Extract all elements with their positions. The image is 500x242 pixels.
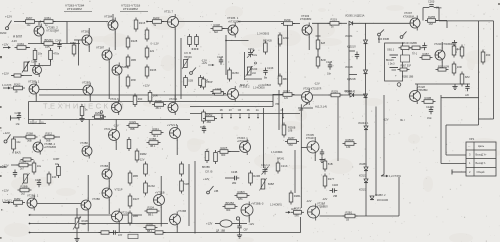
wire x301 vert (300, 104, 302, 208)
capacitor C248 (17, 113, 21, 121)
resistor R264 (17, 159, 31, 170)
diode VD248 (364, 70, 368, 74)
scan speck 7 (498, 3, 500, 5)
label VT214b (121, 211, 129, 215)
wire VT285.2 emitter down (40, 38, 42, 44)
resistor ВР283 (223, 201, 238, 212)
wire bus LB1 (29, 214, 142, 216)
node 1,2-UT3L arrow (381, 175, 402, 178)
scan speck 4 (0, 175, 2, 177)
resistor R240 120k (278, 33, 289, 47)
capacitor C208 (422, 43, 426, 51)
resistor R261 (42, 16, 56, 27)
label R250B (288, 127, 296, 130)
label P8 (276, 103, 280, 106)
node -12V ch1 (11, 39, 17, 43)
resistor R2V3 (147, 137, 161, 148)
resistor R263 (15, 42, 29, 49)
resistor R238b (422, 96, 436, 103)
wire x376 vert (375, 107, 377, 197)
label KT363 b (417, 89, 427, 92)
wire top bus right4 (353, 22, 410, 24)
wire block lower bus (190, 112, 300, 114)
transistor VT219 (102, 186, 112, 201)
wire VT215 dn (176, 140, 178, 156)
terminal bar pin2 (451, 170, 453, 175)
node +12V f (203, 177, 210, 181)
label 1,3-KOB01 (271, 151, 283, 154)
wire to pin1 (441, 163, 466, 165)
label VD249.2t (345, 91, 356, 94)
capacitor C252 (202, 126, 206, 134)
label KD521 d (359, 189, 367, 192)
wire VT286b up (87, 175, 89, 200)
label KT368 (317, 206, 328, 209)
label VT285.1 (28, 80, 40, 84)
resistor R265c (12, 137, 22, 152)
label VD244.1 (358, 122, 369, 125)
scan speck 5 (1, 209, 2, 211)
wire VT214b dn (118, 223, 120, 233)
wire x365 seg2 (365, 44, 367, 70)
wire VT281 out (88, 46, 90, 52)
label VT280 (80, 141, 88, 145)
label A(1,3,L4) (315, 104, 327, 108)
resistor R281b (289, 191, 301, 205)
trimmer capacitor C251 (247, 50, 255, 58)
wire rail d (11, 164, 32, 166)
trimmer resistor ВР240 (246, 66, 253, 77)
resistor R241 (150, 127, 164, 138)
connector XP1 label (469, 137, 475, 141)
wire to pin3 (446, 154, 466, 156)
label VT206 (317, 202, 325, 206)
wire VT283b up (108, 162, 110, 169)
wire x195 vert (194, 161, 196, 234)
resistor R24L (184, 75, 194, 88)
wire right bus down (478, 21, 480, 98)
node j2 (146, 21, 148, 23)
capacitor C2m (355, 52, 359, 60)
label 1,3-6C (2, 199, 12, 203)
label x5B (333, 195, 338, 198)
label SOVT (53, 158, 60, 161)
label B2BL (268, 183, 274, 186)
label VT205m (306, 133, 314, 137)
label TL-1 (412, 53, 418, 56)
scan speck 3 (0, 127, 1, 129)
capacitor C243 (263, 66, 273, 75)
label KT363BM a (300, 17, 311, 21)
label VT287b (82, 81, 91, 85)
ground g5 (237, 233, 242, 239)
wire VT288 down (118, 77, 120, 102)
wire VT280 up (88, 120, 90, 146)
label x38 (214, 190, 219, 193)
wire x78 vert (78, 40, 80, 66)
wire block right edge (272, 94, 274, 107)
label VD28L.2 (375, 194, 386, 197)
transistor VT206 (308, 204, 320, 221)
label x10k (252, 54, 258, 57)
trimmer capacitor C212 (262, 167, 269, 175)
node +12V ch2 (3, 131, 10, 135)
resistor R275 (80, 104, 88, 118)
resistor R234b (180, 179, 190, 194)
capacitor C248 label (15, 111, 22, 115)
node +12V m2 (0, 0, 1, 1)
label KTL21 (237, 140, 249, 143)
label 46R (453, 53, 458, 55)
node A134 arrow (303, 103, 308, 107)
terminal bar C248 (10, 116, 12, 121)
resistor R2L3 (291, 207, 304, 218)
resistor R233b (0, 162, 183, 177)
wire x447 down (446, 21, 448, 29)
wire ch2 rail (14, 136, 26, 138)
header VT215-VT218 (121, 4, 141, 8)
node +12V lower (2, 72, 9, 76)
resistor R265b (32, 161, 42, 175)
label NR249 (184, 56, 192, 59)
label 1LU (118, 235, 123, 237)
resistor R234 (145, 46, 154, 60)
node -12V g (249, 222, 255, 226)
wire x365 seg3 (365, 74, 367, 94)
resistor R249b (199, 75, 209, 88)
switch SA1.1 (6, 27, 9, 30)
resistor R282 (11, 197, 25, 208)
wire VT213 up (115, 120, 117, 130)
transistor VT286.1 (33, 63, 42, 77)
resistor R221 (460, 72, 470, 87)
diode VD264 (364, 40, 368, 44)
wire lower link (30, 65, 51, 67)
resistor R247 (281, 89, 295, 100)
wire x189 vert (188, 164, 190, 226)
transistor VT205m (307, 139, 319, 156)
node -12V m (113, 123, 119, 127)
resistor R277 (323, 174, 335, 189)
node j1 (112, 21, 114, 23)
label KTL02 (44, 146, 56, 149)
resistor R235 (145, 65, 157, 79)
wire bus bottom right (355, 215, 399, 217)
label VT288.2 (44, 142, 56, 146)
label 1Mk (436, 8, 442, 10)
node +12V d (2, 163, 9, 167)
resistor R231 (0, 162, 147, 177)
wire x366 vert1 (365, 95, 367, 126)
wire x493 vert (493, 21, 495, 119)
resistor R28L (235, 190, 250, 201)
wire VT213 dn (115, 142, 117, 151)
component C24B box (401, 55, 410, 62)
resistor R249c (218, 146, 231, 157)
wire R208 right (436, 20, 448, 22)
node -12V c (383, 117, 389, 121)
wire R247 left (273, 94, 283, 96)
label S23 (378, 39, 389, 41)
transistor VT287 (96, 46, 112, 63)
wire x366 vert2 (365, 130, 367, 216)
label 2B2 (232, 182, 237, 185)
wire R263 to bus (26, 47, 30, 49)
trimcap C212 label (261, 164, 271, 167)
wire R223 to VT217 (162, 21, 168, 23)
label x20 (465, 94, 470, 97)
label R253 (200, 126, 206, 129)
wire VT284 collector (112, 14, 114, 20)
resistor R2BL (148, 90, 158, 104)
resistor R223 (150, 16, 164, 27)
wire R269 down (50, 60, 52, 66)
resistor R248m (211, 90, 224, 93)
wire bus LB2 (29, 223, 168, 225)
pin 2Б of block (247, 110, 250, 118)
label A BHL (13, 35, 22, 39)
wire x282 vert (282, 108, 284, 125)
label 1LB (288, 131, 293, 133)
transistor VT238 (170, 212, 181, 228)
transistor VT229 (435, 48, 445, 63)
node -12V b (314, 82, 320, 86)
label VT218 (155, 190, 165, 194)
label VT238 (178, 209, 186, 213)
label 2B (301, 110, 304, 112)
header underline 2 (120, 11, 148, 13)
trimmer resistor R918 (73, 217, 81, 230)
transistor VT285.2 (34, 24, 59, 39)
resistor ВР241 (264, 41, 268, 55)
label VT215 (167, 123, 178, 127)
wire x365 vert (365, 23, 367, 40)
wire x279 vert (278, 90, 280, 130)
label VT203 (301, 14, 310, 18)
resistor R291 (47, 172, 57, 186)
label VT229 (434, 43, 453, 46)
resistor R252v (202, 110, 206, 124)
transistor VT228 (410, 88, 421, 104)
resistor R281 (343, 210, 358, 221)
label DL188 (216, 229, 225, 232)
diode VD285 (364, 167, 368, 171)
battery cell 2 (390, 68, 399, 71)
wire y97 right (441, 97, 479, 99)
label C24B (401, 65, 412, 68)
resistor R228b (128, 211, 138, 226)
switch SB2 (400, 32, 406, 39)
resistor R266 (12, 74, 24, 77)
label BP285 (202, 166, 210, 169)
capacitor C245b label (35, 179, 42, 182)
ground g2 (79, 116, 84, 122)
transistor VT287b (83, 83, 93, 98)
resistor R243 (399, 46, 412, 50)
resistor R267 (23, 16, 37, 27)
label VD248 (345, 66, 353, 69)
wire VT205m dn (314, 155, 316, 161)
transistor VT281 (81, 30, 92, 48)
diode VD244.1 (364, 126, 368, 130)
label 1Mk b (427, 117, 432, 120)
label CB (244, 229, 248, 232)
label ACT (291, 208, 296, 211)
connector contact a (100, 111, 103, 114)
wire x283 vert (287, 25, 289, 93)
capacitor C248b (232, 176, 240, 180)
label VD265.1 (345, 15, 365, 18)
resistor R233 (0, 28, 149, 42)
capacitor C2g (237, 223, 241, 231)
label VT213 (104, 127, 113, 131)
node input arrow ch2 (3, 201, 11, 204)
wire lamp right (232, 223, 247, 225)
label 10n (327, 73, 332, 76)
wire x446 down (445, 125, 447, 155)
resistor R232b (144, 222, 158, 233)
wire VT281 base link (74, 39, 82, 41)
wire R267-R261 (37, 21, 44, 23)
node j3 (225, 40, 227, 42)
label A BHL 2 (12, 151, 20, 155)
diode VD286 (364, 179, 368, 183)
wire x441 vert (440, 95, 442, 164)
wire cap to gnd (239, 231, 241, 233)
capacitor L2B (111, 230, 119, 234)
wire y51 link (349, 50, 355, 52)
wire block left edge (28, 102, 30, 124)
wire mid main bus (39, 94, 366, 96)
trimmer resistor R270 (22, 61, 30, 73)
wire VT287b emitter dn (89, 96, 91, 102)
capacitor C246b (217, 55, 224, 65)
capacitor C2v (320, 149, 324, 157)
wire vert x318 (317, 23, 319, 40)
transistor VT285.1b (27, 196, 37, 211)
wire VT219 dn (108, 200, 110, 215)
capacitor C220 label (426, 106, 434, 109)
wire VT229 emitter dn (441, 62, 443, 69)
capacitor C220 (429, 107, 433, 115)
wire top bus mid (67, 21, 108, 23)
label KD521 c (359, 175, 367, 178)
label VT205.1 (227, 16, 239, 20)
wire x244 vert (244, 52, 246, 80)
resistor R201 (436, 68, 449, 71)
transistor VT217 (164, 10, 179, 31)
switch contact circle (236, 217, 239, 220)
resistor R239 (281, 18, 295, 25)
resistor R21A (99, 231, 112, 234)
wire VT217 down (174, 29, 176, 100)
wire lower rail (11, 75, 32, 77)
resistor R203 (452, 62, 462, 76)
switch SB3 (207, 186, 214, 194)
resistor R2s2 (195, 34, 199, 47)
wire x295 vert (294, 150, 296, 193)
watermark TEKHNICHESKIY (43, 102, 126, 111)
transistor VT215 (170, 125, 181, 141)
capacitor C246 label (55, 39, 62, 43)
wire VT238 dn (176, 226, 178, 233)
wire x480 down (478, 98, 480, 125)
wire VT288.3 em (248, 217, 250, 223)
capacitor C245b (37, 180, 41, 188)
transistor VT288 (112, 63, 128, 78)
resistor R237 (285, 136, 299, 147)
header type KT3102VM (123, 7, 138, 11)
resistor R250P (343, 138, 357, 149)
wire VT283b dn (108, 181, 110, 188)
node +12V mid (143, 84, 150, 88)
header underline (64, 11, 92, 13)
ground g3 (452, 84, 457, 90)
label VT219 (115, 187, 123, 191)
wire top bus left (14, 21, 25, 23)
node -12V a (201, 59, 207, 63)
resistor R208 (425, 15, 438, 26)
terminal circle (397, 83, 401, 87)
capacitor C244 label (31, 60, 38, 64)
trimmer resistor NR249 (182, 59, 189, 70)
wire VT285.1b out (37, 203, 81, 205)
resistor R265 10k (33, 48, 43, 62)
wire R312 out (54, 136, 60, 138)
wire C248 left (11, 117, 20, 119)
wire block bottom right (190, 106, 273, 108)
trimmer resistor R290 (22, 173, 30, 185)
resistor R287 (420, 52, 433, 59)
label VT207 (404, 11, 413, 15)
wire VT203 emitter (308, 37, 310, 51)
header VT283-VT284 (65, 4, 85, 8)
resistor R312 (43, 131, 57, 142)
label VD285 (359, 163, 367, 166)
wire R261 to node (53, 21, 67, 23)
label KT3107L (306, 137, 317, 140)
wire x67 vert (66, 22, 68, 44)
wire VT214m up (174, 95, 176, 100)
label 51R (82, 223, 87, 226)
capacitor C251 label (248, 48, 255, 51)
transistor VT207 (410, 16, 420, 31)
label 40k (55, 163, 60, 166)
resistor R232 (144, 181, 156, 196)
resistor R2c2 (214, 150, 218, 164)
resistor R250a (228, 68, 240, 82)
wire bus to right edge (439, 20, 494, 22)
wire C203 loop top R (434, 7, 439, 9)
resistor R253m (202, 77, 213, 90)
resistor R292 (57, 164, 61, 178)
label KD521V (347, 78, 356, 81)
transistor VT205.2 (228, 86, 239, 102)
wire VT285.1 emitter dn (35, 95, 37, 102)
wire top y84 (415, 83, 470, 85)
resistor R227a (316, 55, 326, 69)
label VT285.1b (27, 194, 39, 198)
resistor R276 (323, 159, 333, 172)
resistor R229m (127, 120, 141, 131)
scan speck 2 (0, 106, 2, 108)
wire VT287 emitter (108, 62, 110, 100)
resistor R226 (460, 45, 464, 59)
wire node A (298, 107, 313, 109)
label x10 (252, 72, 257, 75)
resistor C213 (276, 161, 288, 174)
transistor VT218 (154, 192, 165, 208)
